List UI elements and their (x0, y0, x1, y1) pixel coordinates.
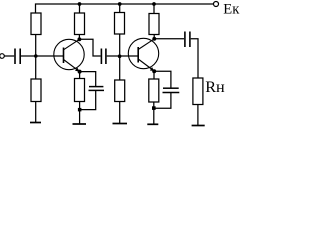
wire top supply rail (36, 4, 214, 13)
input terminal (0, 54, 4, 59)
wire emitter Q2 to Ce2 top (154, 71, 171, 87)
junction dot Re1/Ce1 return (78, 108, 82, 112)
wire emitter Q2 to Re2 (153, 71, 155, 79)
capacitor C1 (15, 49, 20, 65)
wire Ce1 bottom to return (80, 90, 96, 109)
wire Rc2 bottom to collector node (153, 35, 155, 39)
wire emitter Q1 to Ce1 top (80, 72, 96, 86)
wire C3 to load column (191, 39, 198, 78)
ground (below R2) (30, 122, 41, 124)
junction dot rail Rc1 (78, 2, 82, 6)
wire node B vertical (R3 bottom to R4 top) (119, 34, 121, 80)
wire collector Q2 to C3 (154, 38, 184, 40)
wire Rc1 top riser (79, 4, 81, 13)
wire C1 to node A (21, 55, 36, 57)
svg-text:Eк: Eк (223, 2, 240, 18)
resistor Rc1 (75, 13, 85, 35)
wire Re1 bottom to ground (79, 102, 81, 125)
capacitor Ce1 (89, 87, 105, 91)
node collector Q2 junction dot (152, 37, 156, 41)
wire node A vertical (R1 bottom to R2 top) (35, 35, 37, 80)
wire input to C1 (4, 55, 14, 57)
junction dot rail Rc2 (152, 2, 156, 6)
resistor R4 (115, 80, 125, 102)
resistor Rn load (193, 78, 203, 105)
wire node B to base Q2 (120, 55, 139, 57)
capacitor Ce2 (163, 88, 180, 92)
resistor R1 (31, 13, 41, 35)
wire R3 riser (119, 4, 121, 13)
wire Rn to ground (197, 105, 199, 126)
svg-text:Rн: Rн (205, 78, 225, 96)
resistor R3 (115, 13, 125, 35)
transistor Q2 (128, 38, 158, 71)
junction dot rail R3 (118, 2, 122, 6)
node collector Q1 junction dot (77, 37, 81, 41)
junction dot Re2/Ce2 return (152, 106, 156, 110)
node emitter Q2 junction dot (152, 69, 156, 73)
wire Rc2 riser (153, 4, 155, 14)
resistor Rc2 (149, 14, 159, 35)
wire collector Q1 jog to C2 (79, 39, 100, 56)
wire Rc1 bottom to collector node (78, 35, 80, 40)
terminal Ek (214, 2, 219, 7)
node emitter Q1 junction dot (78, 70, 82, 74)
resistor Re2 (149, 79, 159, 102)
wire node A to base Q1 (36, 55, 64, 57)
resistor Re1 (75, 79, 85, 102)
wire R2 to ground (35, 102, 37, 123)
resistor R2 (31, 79, 41, 102)
capacitor C2 (101, 49, 106, 65)
ground (below Rn) (192, 125, 205, 127)
wire R4 to ground (119, 102, 121, 124)
ground (stage 2 emitter) (147, 123, 158, 125)
wire Re2 bottom to ground (153, 102, 155, 124)
wire Ce2 bottom to return (154, 93, 171, 109)
node A junction dot (base Q1 divider) (34, 54, 38, 58)
wire emitter Q1 to Re1 (79, 72, 81, 79)
node B junction dot (base Q2 divider) (118, 54, 122, 58)
transistor Q1 (54, 39, 84, 71)
wire C2 to node B (107, 55, 120, 57)
capacitor C3 (185, 32, 190, 48)
ground (below R4) (113, 123, 128, 125)
ground (stage 1 emitter) (73, 123, 87, 125)
